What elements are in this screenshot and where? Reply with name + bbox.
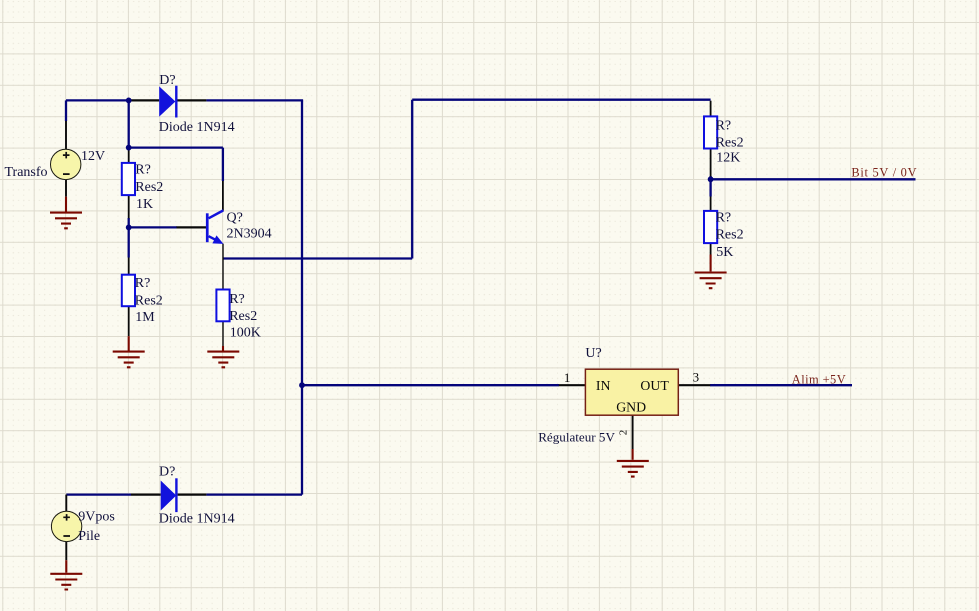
- svg-text:5K: 5K: [716, 245, 733, 260]
- pin D1 cathode: [177, 99, 206, 101]
- pin Q1 collector: [222, 181, 224, 211]
- resistor R5K body: [704, 211, 717, 243]
- wire junction to 1K: [128, 100, 130, 148]
- svg-text:9Vpos: 9Vpos: [78, 510, 115, 525]
- wire base node down to 1M: [128, 227, 130, 257]
- pin D2 anode: [131, 494, 161, 496]
- resistor R100K body: [216, 290, 229, 322]
- svg-text:Res2: Res2: [716, 135, 744, 150]
- svg-text:Res2: Res2: [135, 180, 163, 195]
- node 1K top junction: [126, 145, 132, 151]
- pin U1 output 3: [678, 384, 710, 386]
- diode D2: [161, 478, 178, 512]
- wire divider node down to 5K: [709, 179, 711, 196]
- svg-text:R?: R?: [135, 276, 151, 291]
- pin D2 cathode: [178, 494, 207, 496]
- node base junction: [126, 225, 132, 231]
- pin D1 anode: [131, 99, 159, 101]
- svg-text:Transfo: Transfo: [5, 165, 48, 180]
- wire divider node to Bit label end: [711, 178, 916, 180]
- source 9V Pile: [51, 511, 81, 541]
- pin 9V top: [65, 495, 67, 512]
- ground 100K: [207, 346, 239, 367]
- svg-text:Res2: Res2: [716, 228, 744, 243]
- wire 12K bottom to divider node: [709, 176, 711, 179]
- svg-text:12K: 12K: [716, 150, 740, 165]
- pin 12K bottom: [710, 148, 712, 177]
- wire base node to base pin: [129, 226, 177, 228]
- svg-text:1K: 1K: [136, 197, 153, 212]
- svg-text:Q?: Q?: [227, 211, 243, 226]
- wire 1K bottom to base node: [128, 218, 130, 227]
- svg-text:3: 3: [693, 370, 700, 385]
- svg-text:2: 2: [617, 430, 629, 436]
- svg-text:Régulateur 5V: Régulateur 5V: [538, 429, 615, 444]
- wire second top rail: [412, 99, 710, 101]
- svg-text:Diode 1N914: Diode 1N914: [159, 120, 235, 135]
- svg-text:1: 1: [564, 370, 571, 385]
- resistor R1K body: [122, 163, 135, 195]
- wire regulator input from x302 junction: [302, 384, 559, 386]
- pin 12V top: [65, 121, 67, 150]
- svg-text:IN: IN: [596, 378, 611, 393]
- svg-text:Bit 5V / 0V: Bit 5V / 0V: [851, 166, 917, 180]
- pin 12K top: [710, 101, 712, 117]
- pin 1M bottom: [128, 306, 130, 336]
- ground 1M: [113, 336, 145, 367]
- svg-text:Res2: Res2: [135, 293, 163, 308]
- wire bottom rail left: [66, 493, 131, 495]
- wire vertical x412: [411, 100, 413, 259]
- resistor R1M body: [122, 275, 135, 307]
- svg-text:2N3904: 2N3904: [227, 227, 272, 242]
- wire 1K-top node to collector: [129, 148, 223, 181]
- svg-text:Alim +5V: Alim +5V: [792, 372, 846, 386]
- wire bottom rail right of D2: [206, 493, 302, 495]
- pin 5K top: [710, 197, 712, 212]
- ground 5K: [695, 255, 727, 289]
- svg-text:12V: 12V: [81, 149, 105, 164]
- svg-text:Pile: Pile: [78, 529, 100, 544]
- svg-text:R?: R?: [229, 292, 245, 307]
- pin 9V bottom: [65, 542, 67, 561]
- ground 12V source: [50, 197, 82, 229]
- node divider junction: [708, 176, 714, 182]
- pin 100K bottom: [222, 321, 224, 346]
- pin 5K bottom: [710, 243, 712, 255]
- node regulator-input junction: [299, 382, 305, 388]
- svg-text:R?: R?: [716, 210, 732, 225]
- wire regulator output to Alim label: [710, 384, 852, 386]
- svg-text:D?: D?: [159, 73, 175, 88]
- pin 1K top: [128, 148, 130, 163]
- svg-text:R?: R?: [135, 162, 151, 177]
- ground regulator: [617, 449, 649, 477]
- pin 1K bottom: [128, 195, 130, 218]
- svg-text:Diode 1N914: Diode 1N914: [159, 512, 235, 527]
- svg-text:100K: 100K: [230, 325, 261, 340]
- wire top rail right of D1 to corner: [206, 99, 303, 101]
- svg-text:OUT: OUT: [640, 378, 669, 393]
- wire 12V source stub: [65, 100, 67, 121]
- diode D1: [159, 86, 177, 118]
- wire emitter node to right: [223, 257, 412, 259]
- source 12V Transfo: [50, 149, 80, 179]
- ground 9V source: [50, 560, 82, 589]
- svg-text:Res2: Res2: [229, 309, 257, 324]
- svg-text:1M: 1M: [135, 310, 155, 325]
- pin Q1 base: [177, 226, 207, 228]
- node diode-anode junction: [126, 98, 132, 104]
- svg-text:GND: GND: [616, 399, 646, 414]
- svg-text:D?: D?: [159, 465, 175, 480]
- wire top rail left: [66, 99, 131, 101]
- wire vertical x302 top-to-bottom rail: [301, 100, 303, 494]
- pin 1M top: [128, 258, 130, 275]
- pin U1 input 1: [559, 384, 586, 386]
- pin 12V bottom: [65, 180, 67, 197]
- pin Q1 emitter + 100K top: [222, 244, 224, 290]
- pin U1 gnd 2: [632, 415, 634, 449]
- svg-text:R?: R?: [716, 118, 732, 133]
- resistor R12K body: [704, 116, 717, 148]
- svg-text:U?: U?: [585, 346, 601, 361]
